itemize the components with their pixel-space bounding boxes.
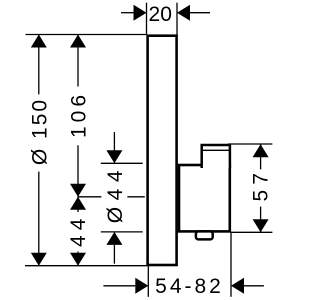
- dim 20: right arrow: [190, 12, 210, 14]
- dim 106: bottom arrow: [70, 184, 86, 197]
- dim 20: right extension line: [176, 3, 178, 35]
- wall plate (side view): [148, 36, 177, 265]
- dim 57: label: [251, 169, 271, 206]
- dim Ø44: top arrow: [113, 132, 115, 151]
- dim 44: bottom arrow: [70, 253, 86, 266]
- dim 54-82: right arrow: [244, 285, 264, 287]
- extension line: plate bottom: [25, 265, 146, 267]
- dim 57: bottom extension line: [231, 231, 272, 233]
- bottom tab: [196, 231, 213, 239]
- dim 54-82: left extension line: [147, 266, 149, 297]
- dim Ø44: label: [101, 166, 127, 228]
- dim Ø150: bottom arrow: [31, 253, 47, 266]
- svg-text:106: 106: [68, 91, 91, 138]
- dim 106: top arrow: [70, 35, 86, 48]
- dim 57: top arrow: [253, 144, 269, 157]
- dim 44: label: [67, 212, 87, 252]
- axis line of valve: [78, 196, 145, 198]
- dim Ø150: label: [29, 94, 49, 171]
- lever inner line: [202, 149, 230, 151]
- dim Ø150: top arrow: [31, 35, 47, 48]
- dim 57: line: [260, 144, 262, 232]
- svg-text:20: 20: [149, 3, 172, 26]
- extension line: plate top: [26, 34, 147, 36]
- dim 106: label: [68, 87, 88, 146]
- dim 20: left arrow: [121, 12, 134, 14]
- dim Ø44: bottom arrow: [113, 245, 115, 264]
- dim Ø150: line: [38, 35, 40, 266]
- dim 54-82: left arrow: [103, 285, 135, 287]
- dim 106: line: [77, 35, 79, 197]
- dim 57: bottom arrow: [253, 219, 269, 232]
- svg-text:Ø 150: Ø 150: [28, 98, 51, 165]
- dim 54-82: right extension line: [230, 233, 232, 297]
- dim 44: line: [77, 197, 79, 266]
- valve body sleeve: [179, 165, 230, 231]
- dim Ø44: bottom extension line: [101, 231, 143, 233]
- svg-text:44: 44: [67, 214, 90, 247]
- dim 20: left extension line: [146, 3, 148, 35]
- dim 57: top extension line: [228, 143, 272, 145]
- handle lever (open-bottom box): [202, 145, 230, 168]
- dim 44: top arrow: [70, 197, 86, 210]
- svg-text:Ø44: Ø44: [104, 164, 127, 223]
- svg-text:54-82: 54-82: [155, 275, 224, 298]
- svg-text:57: 57: [249, 168, 272, 201]
- dim Ø44: top extension line: [101, 162, 143, 164]
